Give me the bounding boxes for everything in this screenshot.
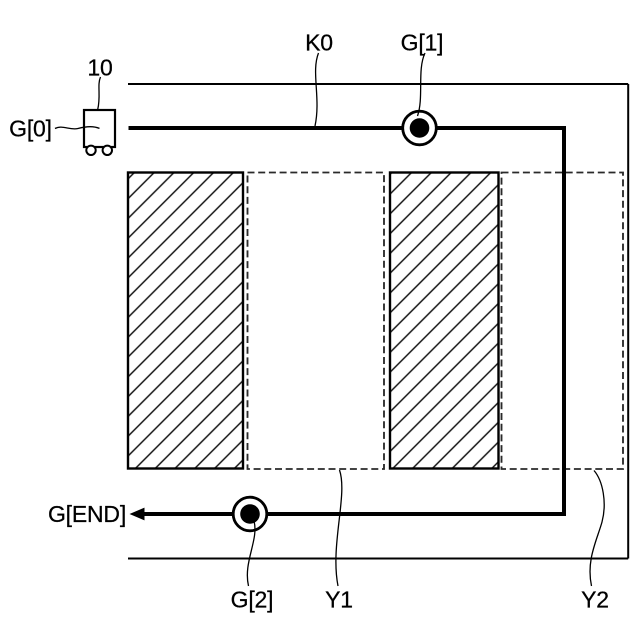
track boundary right (thin line) [627,84,629,559]
hatched block right [390,173,499,469]
svg-text:G[END]: G[END] [48,501,126,527]
track boundary top (thin line) [128,83,628,85]
leader line for label Y1 [336,470,342,586]
route segment bottom (thick travel line) [142,512,566,516]
dashed region Y2 (right area) [502,173,624,470]
track boundary bottom (thin line) [128,558,628,560]
dashed region Y1 (between hatched blocks) [248,173,385,470]
svg-text:G[2]: G[2] [231,586,274,612]
svg-text:Y2: Y2 [581,586,609,612]
leader line for label K0 [315,53,319,126]
svg-text:K0: K0 [305,30,333,56]
svg-text:Y1: Y1 [325,586,353,612]
leader line for label 10 [98,77,101,110]
svg-text:G[1]: G[1] [401,29,444,55]
svg-text:10: 10 [87,54,112,80]
node G[1] (waypoint circle) [403,111,437,145]
vehicle 10 (carrier cart) [84,110,115,155]
arrowhead toward G[END] [130,508,145,521]
leader line for label G[1] [418,53,426,116]
leader line for label G[2] [247,521,255,586]
route segment top (thick travel line) [129,126,567,130]
hatched block left [128,173,243,469]
leader line for label Y2 [590,471,604,587]
node G[2] (waypoint circle) [233,497,267,531]
svg-text:G[0]: G[0] [9,115,52,141]
route segment right (thick travel line) [562,126,566,516]
leader line for label G[0] [55,127,100,129]
